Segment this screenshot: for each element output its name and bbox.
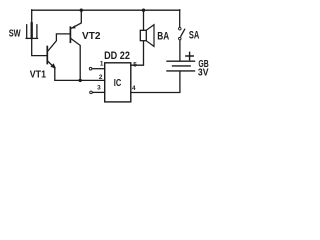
svg-text:1: 1 <box>100 61 104 68</box>
svg-text:SW: SW <box>9 28 21 40</box>
svg-text:VT2: VT2 <box>82 30 101 42</box>
svg-text:SA: SA <box>189 30 199 42</box>
svg-text:5: 5 <box>133 62 137 69</box>
svg-text:VT1: VT1 <box>30 68 46 80</box>
svg-text:3: 3 <box>97 85 101 92</box>
svg-text:2: 2 <box>99 74 103 81</box>
svg-text:3V: 3V <box>198 66 209 78</box>
svg-text:BA: BA <box>157 30 169 42</box>
svg-text:IC: IC <box>114 78 122 89</box>
svg-text:4: 4 <box>132 85 136 92</box>
svg-text:DD 22: DD 22 <box>104 50 130 62</box>
